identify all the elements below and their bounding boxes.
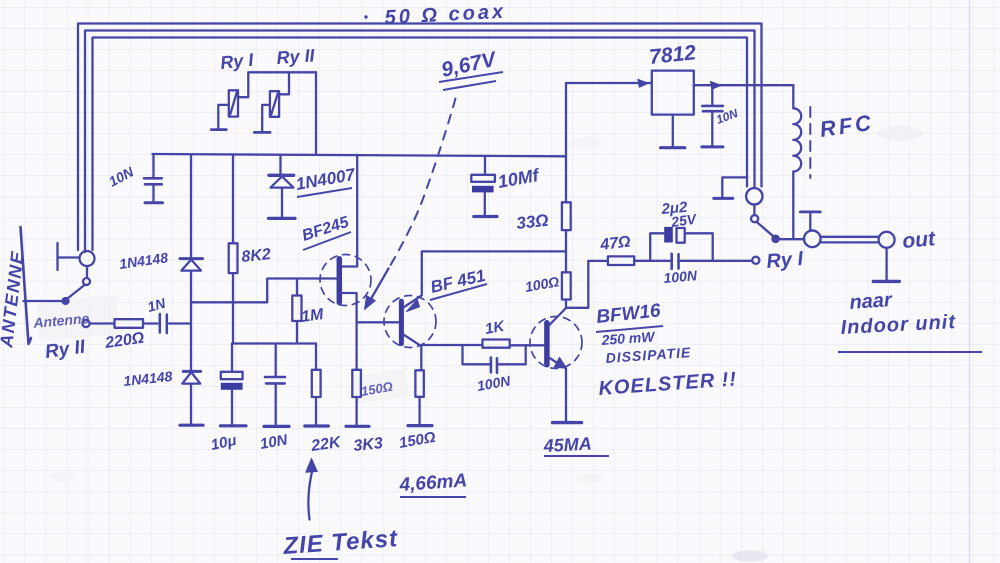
svg-text:33Ω: 33Ω — [515, 211, 549, 233]
svg-text:Ry II: Ry II — [276, 45, 316, 68]
svg-text:Ry I: Ry I — [219, 50, 255, 73]
svg-text:1M: 1M — [300, 306, 325, 326]
svg-text:7812: 7812 — [648, 41, 697, 69]
svg-text:45MA: 45MA — [542, 434, 592, 457]
svg-text:Ry I: Ry I — [766, 248, 805, 273]
svg-text:100N: 100N — [663, 267, 699, 286]
svg-text:out: out — [901, 227, 937, 253]
svg-text:3K3: 3K3 — [353, 435, 384, 455]
svg-text:naar: naar — [849, 289, 894, 314]
svg-text:8K2: 8K2 — [241, 246, 272, 266]
